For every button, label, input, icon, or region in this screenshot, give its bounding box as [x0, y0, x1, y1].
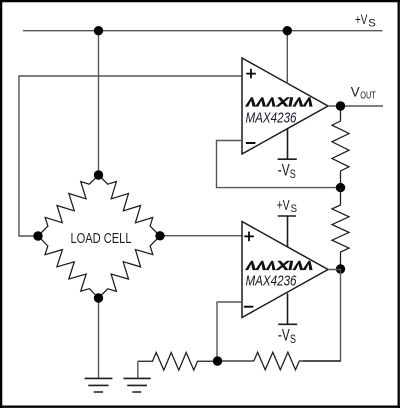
U1 MAXIM logo: [245, 97, 313, 106]
resistor divider R1 (Vout to U1 feedback node): [332, 106, 349, 188]
wire +Vs top rail: [23, 30, 383, 32]
svg-text:S: S: [291, 203, 297, 215]
U1 + input symbol: [246, 69, 256, 79]
label +Vs (top right): [355, 12, 376, 29]
node Vout / R1: [336, 101, 345, 110]
svg-text:V: V: [351, 84, 360, 100]
svg-text:MAX4236: MAX4236: [246, 274, 298, 290]
wire R4 to ground riser: [137, 361, 139, 377]
+Vs terminal U2: [278, 216, 296, 247]
node bridge bottom: [94, 293, 103, 302]
label Vout: [351, 84, 377, 101]
svg-text:LOAD CELL: LOAD CELL: [71, 231, 132, 247]
op-amp U2 triangle: [242, 222, 328, 318]
svg-text:OUT: OUT: [360, 91, 376, 102]
label -Vs (U2): [278, 326, 296, 346]
load cell bridge resistor (top-right arm): [99, 175, 161, 236]
wire U1 output / Vout: [328, 105, 383, 107]
wire U2 output to gain network: [303, 270, 341, 362]
wire rail to bridge top vertex: [98, 31, 100, 175]
node bridge right: [155, 231, 164, 240]
svg-text:+V: +V: [355, 12, 368, 28]
U2 - input symbol: [244, 306, 254, 308]
wire U2 -input feedback: [217, 302, 242, 361]
U1 - input symbol: [246, 142, 256, 144]
node U2 feedback / gain divider: [213, 356, 222, 365]
U2 MAXIM logo: [245, 261, 313, 270]
load cell bridge resistor (bottom-right arm): [99, 236, 161, 298]
gain resistor R4 (ground to feedback node): [138, 353, 218, 371]
svg-text:+V: +V: [277, 198, 290, 214]
resistor divider R2 (feedback node to U2 output): [332, 188, 349, 269]
wire U1 -input feedback loop: [217, 141, 341, 188]
svg-text:S: S: [290, 167, 296, 181]
gain resistor R3 (feedback node to U2 output): [218, 352, 341, 370]
svg-text:-V: -V: [278, 162, 290, 180]
wire bridge right vertex to U2 +input: [160, 235, 242, 237]
-Vs terminal U2: [278, 293, 297, 324]
node U2 output: [336, 264, 345, 273]
label +Vs (U2): [277, 198, 297, 215]
wire bridge left vertex to U1 +input: [19, 76, 242, 236]
node bridge top: [94, 170, 103, 179]
U2 + input symbol: [244, 232, 254, 242]
svg-text:S: S: [290, 332, 296, 346]
svg-text:-V: -V: [278, 326, 290, 344]
label -Vs (U1): [278, 162, 296, 182]
ground (gain resistor): [124, 378, 151, 392]
svg-text:MAX4236: MAX4236: [246, 110, 298, 126]
svg-text:S: S: [368, 18, 376, 30]
-Vs terminal U1: [278, 129, 297, 160]
node R1/R2 junction (U1 feedback): [336, 183, 345, 192]
load cell bridge resistor (top-left arm): [38, 175, 99, 236]
op-amp U1 triangle: [242, 58, 328, 154]
wire bridge bottom vertex to ground: [98, 298, 100, 378]
ground (bridge): [85, 378, 113, 392]
node rail / U1 supply: [283, 26, 292, 35]
wire +Vs supply stem U1: [286, 31, 288, 84]
load cell bridge resistor (bottom-left arm): [38, 236, 99, 298]
node bridge left: [33, 231, 42, 240]
node rail / bridge supply: [94, 26, 103, 35]
